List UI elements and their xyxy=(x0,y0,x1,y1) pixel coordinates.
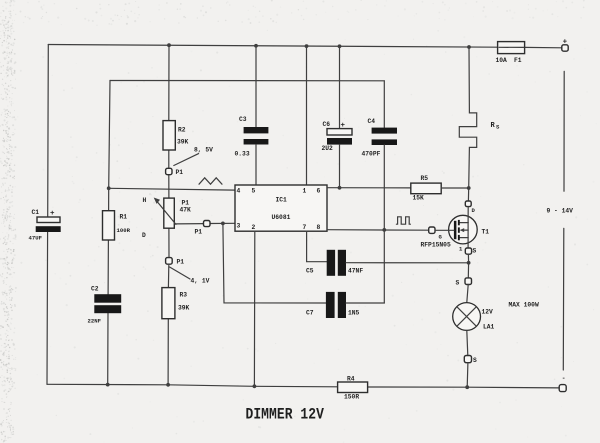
svg-text:1: 1 xyxy=(303,188,307,195)
svg-text:D: D xyxy=(142,232,146,239)
resistor R4 150R xyxy=(338,376,368,401)
svg-text:100R: 100R xyxy=(117,227,131,234)
wire second bus xyxy=(110,80,384,82)
svg-text:C1: C1 xyxy=(32,209,40,216)
node junction bottom bus at lamp xyxy=(465,385,469,389)
node junction C6 lead on pin 6 wire xyxy=(338,186,342,190)
svg-text:LA1: LA1 xyxy=(483,324,495,331)
node title DIMMER 12V xyxy=(246,407,325,424)
node junction H-wire at V2 xyxy=(107,186,111,190)
svg-text:F1: F1 xyxy=(514,57,522,64)
terminal S (source) xyxy=(465,248,476,255)
capacitor C4 470PF xyxy=(362,81,398,303)
wire R5 to drain node xyxy=(441,187,469,189)
svg-text:C2: C2 xyxy=(91,286,99,293)
capacitor C3 0.33 xyxy=(235,46,269,185)
node junction top bus at IC pin 1 xyxy=(305,44,309,48)
wire S lower to bottom bus xyxy=(466,363,469,388)
capacitor C2 22NF xyxy=(88,286,122,325)
lamp LA1 12V xyxy=(453,303,495,331)
svg-text:+: + xyxy=(341,122,346,130)
svg-text:DIMMER 12V: DIMMER 12V xyxy=(246,407,325,424)
node junction C4 branch on gate wire xyxy=(382,228,386,232)
node junction top bus at C3 xyxy=(254,44,258,48)
waveform squarewave glyph xyxy=(396,217,410,224)
svg-text:1N5: 1N5 xyxy=(348,310,360,317)
wire IC pin 6 to R5 xyxy=(327,187,411,189)
svg-text:IC1: IC1 xyxy=(276,197,288,204)
svg-text:6: 6 xyxy=(317,188,321,195)
transistor T1 RFP15N05 MOSFET xyxy=(421,207,490,253)
svg-text:0.33: 0.33 xyxy=(235,151,250,158)
svg-text:U6081: U6081 xyxy=(272,214,291,221)
resistor R3 39K xyxy=(162,288,190,319)
svg-text:R3: R3 xyxy=(180,292,188,299)
svg-text:C4: C4 xyxy=(368,118,376,125)
svg-text:10A: 10A xyxy=(496,57,508,64)
node junction bottom bus at IC pin 2 xyxy=(253,384,257,388)
svg-text:S: S xyxy=(473,357,477,364)
svg-text:R4: R4 xyxy=(347,376,355,383)
terminal S lower xyxy=(464,356,477,365)
svg-text:7: 7 xyxy=(303,224,307,231)
svg-text:P1: P1 xyxy=(176,169,184,176)
svg-text:2U2: 2U2 xyxy=(322,145,334,152)
node junction top bus at R2 xyxy=(167,43,171,47)
node junction wiper wire / C7 branch xyxy=(221,222,225,226)
wire C7 right to C4 branch xyxy=(346,302,384,304)
node annotation MAX 100W xyxy=(509,302,539,309)
svg-text:9 - 14V: 9 - 14V xyxy=(547,208,574,215)
wire junction down to C7 xyxy=(223,223,326,303)
svg-text:22NF: 22NF xyxy=(88,318,102,325)
svg-text:H: H xyxy=(143,197,147,204)
svg-text:47UF: 47UF xyxy=(29,235,43,242)
capacitor C7 1N5 xyxy=(306,292,360,318)
svg-text:4, 1V: 4, 1V xyxy=(191,278,210,285)
wire P1 wiper to IC pin 3 xyxy=(176,222,235,225)
potentiometer P1 47K xyxy=(142,197,191,239)
svg-text:C7: C7 xyxy=(306,310,314,317)
terminal + (positive supply) xyxy=(562,39,568,52)
svg-text:C5: C5 xyxy=(306,268,314,275)
svg-text:47NF: 47NF xyxy=(348,268,363,275)
terminal - (negative supply) xyxy=(559,375,566,392)
terminal P1 top (H end) xyxy=(166,168,184,176)
svg-text:150R: 150R xyxy=(344,394,359,401)
wire H to IC pin 4 xyxy=(109,188,235,190)
node junction bottom bus at R3 xyxy=(166,383,170,387)
node junction drain rail at R5 xyxy=(467,186,471,190)
svg-text:+: + xyxy=(50,210,55,218)
svg-text:C3: C3 xyxy=(239,116,247,123)
wire junction to S terminal xyxy=(467,263,469,278)
resistor R1 100R xyxy=(103,211,131,240)
svg-text:470PF: 470PF xyxy=(362,151,381,158)
svg-text:S: S xyxy=(456,280,460,287)
svg-text:P1: P1 xyxy=(182,200,190,207)
svg-text:MAX 100W: MAX 100W xyxy=(509,302,539,309)
resistor Rs meander xyxy=(459,47,500,188)
svg-text:R2: R2 xyxy=(178,127,186,134)
node junction bottom bus at C2 xyxy=(106,383,110,387)
svg-text:R5: R5 xyxy=(421,175,429,182)
svg-text:12V: 12V xyxy=(482,309,494,316)
svg-text:8, 5V: 8, 5V xyxy=(194,147,213,154)
wire C5 to T1 source node xyxy=(346,262,469,264)
node 9 - 14V supply bracket xyxy=(547,71,574,370)
wire source to junction xyxy=(467,254,469,263)
wire IC pin 2 to bottom bus xyxy=(253,231,255,386)
terminal P1 wiper xyxy=(195,221,211,236)
capacitor C6 2U2 electrolytic xyxy=(322,46,353,188)
wire S terminal to lamp xyxy=(467,285,468,303)
svg-text:P1: P1 xyxy=(177,259,185,266)
terminal G (gate) xyxy=(429,227,454,241)
svg-text:5: 5 xyxy=(252,188,256,195)
wire IC pin 8 to gate xyxy=(327,229,429,232)
svg-text:P1: P1 xyxy=(195,229,203,236)
svg-text:T1: T1 xyxy=(482,229,490,236)
op-amp / IC U1 IC1 U6081 xyxy=(235,185,327,231)
wire top supply bus xyxy=(48,45,562,48)
node annotation 4,1V with leader xyxy=(170,267,210,285)
waveform sawtooth glyph xyxy=(199,178,222,184)
wire V2 rail (R1/C2 branch) xyxy=(108,81,110,385)
wire lamp to S terminal lower xyxy=(467,330,468,355)
svg-text:39K: 39K xyxy=(177,139,189,146)
svg-text:15K: 15K xyxy=(413,195,425,202)
resistor R5 15K xyxy=(411,175,441,202)
svg-text:47K: 47K xyxy=(180,207,192,214)
svg-text:+: + xyxy=(563,39,568,47)
terminal S mid xyxy=(456,278,472,287)
node annotation 8,5V with leader xyxy=(174,147,213,166)
svg-text:2: 2 xyxy=(252,224,256,231)
wire bottom bus xyxy=(47,384,559,388)
capacitor C5 47NF xyxy=(306,250,363,276)
svg-text:4: 4 xyxy=(237,188,241,195)
svg-text:3: 3 xyxy=(237,223,241,230)
svg-text:RFP15N05: RFP15N05 xyxy=(421,242,451,249)
node junction top bus at C6 xyxy=(338,44,342,48)
node junction source / C5 wire xyxy=(467,261,471,265)
terminal P1 bottom (D end) xyxy=(166,258,185,266)
fuse F1 10A xyxy=(496,42,525,64)
svg-text:-: - xyxy=(562,375,566,382)
resistor R2 39K xyxy=(163,121,189,150)
terminal D (drain) xyxy=(465,201,475,214)
wire V3 rail (R2/P1/R3 branch) xyxy=(167,45,170,385)
node junction top bus at Rs xyxy=(467,45,471,49)
capacitor C1 47UF electrolytic xyxy=(29,209,61,242)
svg-text:8: 8 xyxy=(317,224,321,231)
svg-text:39K: 39K xyxy=(178,305,190,312)
svg-text:R1: R1 xyxy=(120,214,128,221)
svg-text:S: S xyxy=(473,248,477,255)
wire top bus to IC pin 1 xyxy=(306,46,308,185)
svg-text:C6: C6 xyxy=(323,121,331,128)
wire left rail (C1 branch) xyxy=(47,45,48,385)
wire drain node to D terminal xyxy=(467,188,469,201)
wire IC pin 7 to C5 xyxy=(307,231,327,262)
